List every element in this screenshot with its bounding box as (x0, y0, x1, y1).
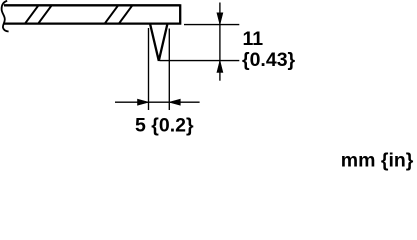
svg-text:{0.43}: {0.43} (242, 49, 296, 71)
svg-text:mm {in}: mm {in} (341, 149, 414, 171)
svg-text:11: 11 (243, 28, 264, 50)
svg-text:5 {0.2}: 5 {0.2} (135, 114, 194, 136)
